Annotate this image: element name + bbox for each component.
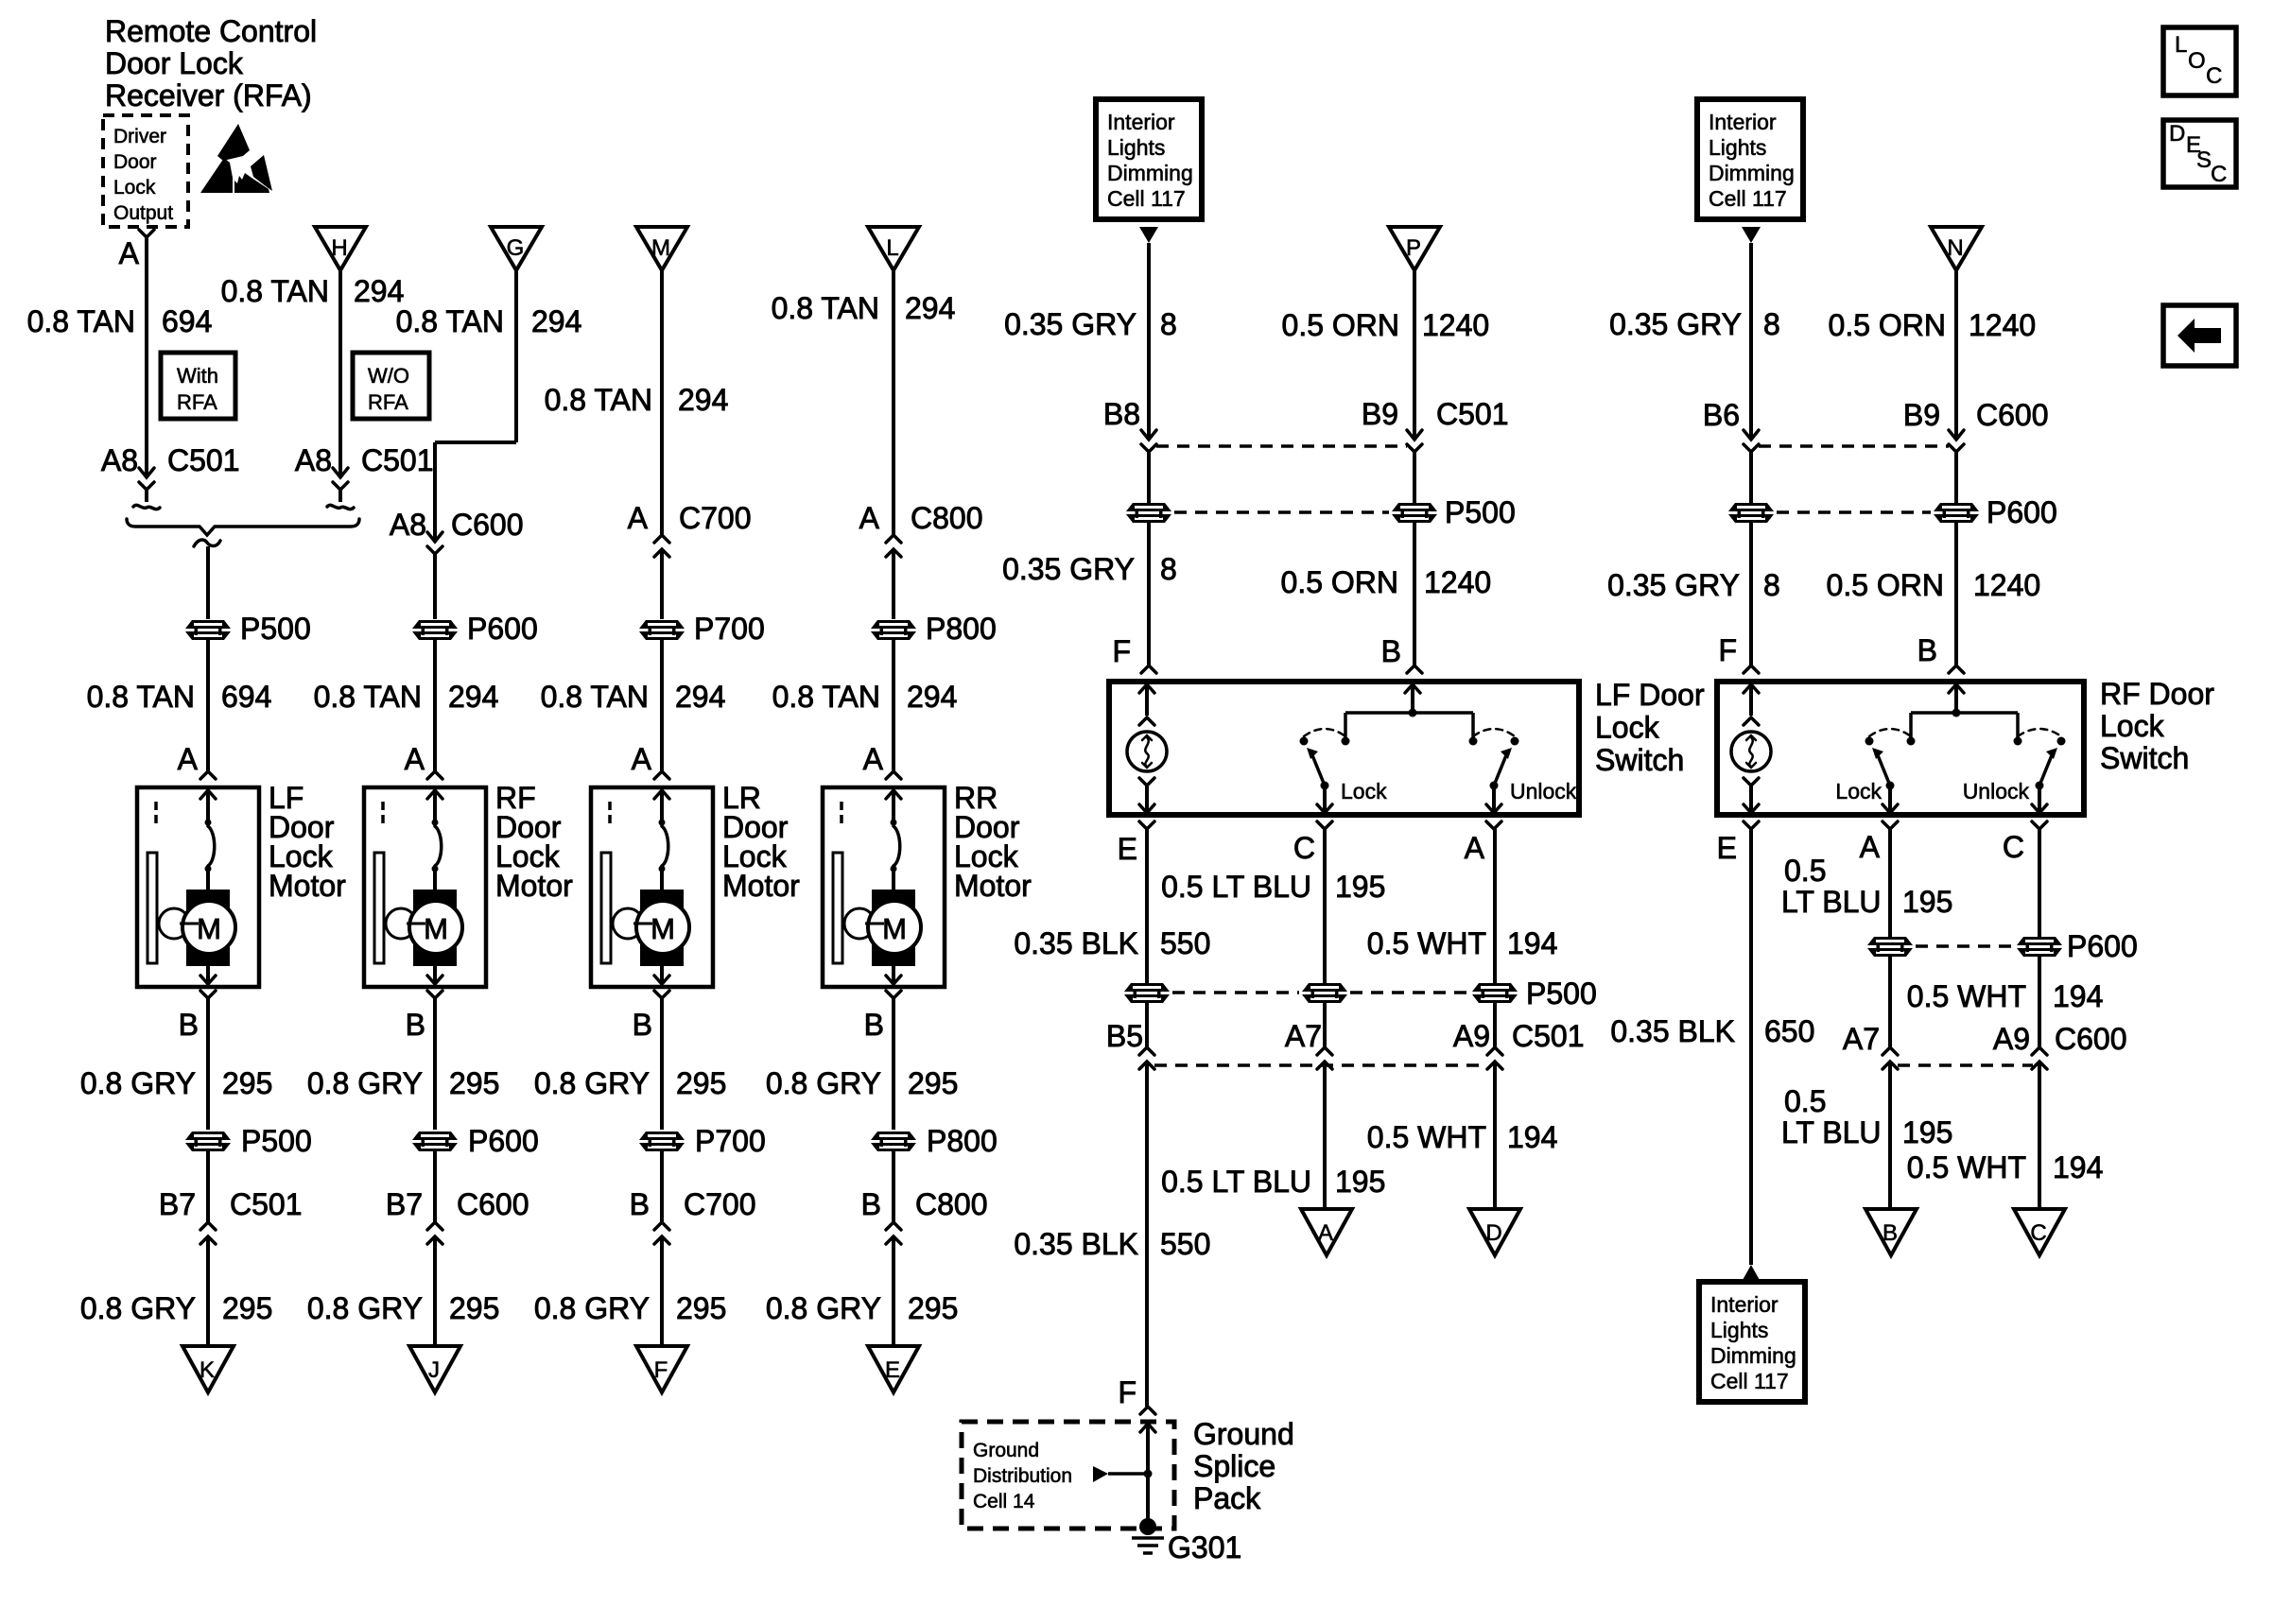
svg-text:LF Door: LF Door xyxy=(1595,678,1705,712)
svg-text:C800: C800 xyxy=(915,1187,988,1221)
svg-text:195: 195 xyxy=(1335,870,1385,904)
svg-text:Dimming: Dimming xyxy=(1107,161,1193,185)
svg-text:1240: 1240 xyxy=(1969,308,2036,342)
svg-text:B7: B7 xyxy=(386,1187,423,1221)
svg-text:L: L xyxy=(2175,32,2187,58)
svg-text:A: A xyxy=(1318,1220,1333,1246)
svg-text:P500: P500 xyxy=(1526,976,1597,1011)
svg-text:RFA: RFA xyxy=(368,390,408,414)
svg-text:Motor: Motor xyxy=(495,869,573,903)
svg-text:W/O: W/O xyxy=(368,364,409,388)
svg-text:0.5 LT BLU: 0.5 LT BLU xyxy=(1161,870,1311,904)
svg-text:0.5 LT BLU: 0.5 LT BLU xyxy=(1161,1165,1311,1199)
svg-text:B: B xyxy=(864,1008,884,1042)
svg-text:194: 194 xyxy=(1507,926,1557,960)
svg-text:Lights: Lights xyxy=(1709,135,1766,160)
svg-text:0.35 GRY: 0.35 GRY xyxy=(1607,568,1740,602)
svg-text:C600: C600 xyxy=(451,508,524,542)
svg-text:C501: C501 xyxy=(230,1187,303,1221)
svg-text:295: 295 xyxy=(222,1291,272,1325)
svg-text:M: M xyxy=(651,235,670,261)
svg-text:P600: P600 xyxy=(2067,929,2138,963)
svg-text:0.5 WHT: 0.5 WHT xyxy=(1907,979,2026,1013)
svg-text:B9: B9 xyxy=(1903,398,1940,432)
svg-text:C: C xyxy=(2003,830,2024,864)
svg-text:B: B xyxy=(861,1187,881,1221)
svg-text:0.5 ORN: 0.5 ORN xyxy=(1829,308,1946,342)
svg-text:A: A xyxy=(863,742,884,776)
svg-text:0.8 GRY: 0.8 GRY xyxy=(80,1291,196,1325)
svg-text:694: 694 xyxy=(162,304,212,338)
svg-text:0.8 GRY: 0.8 GRY xyxy=(534,1066,650,1100)
svg-text:D: D xyxy=(2169,121,2185,147)
svg-text:0.5 WHT: 0.5 WHT xyxy=(1367,1120,1486,1154)
svg-text:Dimming: Dimming xyxy=(1709,161,1795,185)
svg-text:0.5 ORN: 0.5 ORN xyxy=(1282,308,1399,342)
svg-text:Cell 117: Cell 117 xyxy=(1709,186,1787,211)
svg-text:LT BLU: LT BLU xyxy=(1781,885,1882,919)
svg-text:B: B xyxy=(633,1008,652,1042)
svg-text:0.8 TAN: 0.8 TAN xyxy=(772,291,879,325)
svg-text:F: F xyxy=(1118,1375,1136,1409)
svg-text:Switch: Switch xyxy=(1595,743,1684,777)
svg-text:B: B xyxy=(1917,633,1937,667)
svg-text:P500: P500 xyxy=(240,612,311,646)
svg-text:Interior: Interior xyxy=(1107,110,1175,134)
svg-text:0.8 TAN: 0.8 TAN xyxy=(27,304,135,338)
svg-text:Door: Door xyxy=(113,151,157,173)
svg-text:Motor: Motor xyxy=(269,869,346,903)
svg-text:P600: P600 xyxy=(467,612,538,646)
svg-text:P600: P600 xyxy=(1987,495,2057,529)
svg-text:Output: Output xyxy=(113,202,173,224)
svg-text:G: G xyxy=(507,235,525,261)
svg-text:C600: C600 xyxy=(1976,398,2049,432)
svg-text:D: D xyxy=(1485,1220,1501,1246)
svg-text:0.8 GRY: 0.8 GRY xyxy=(307,1066,423,1100)
svg-text:Lock: Lock xyxy=(1341,779,1387,803)
svg-text:B9: B9 xyxy=(1362,397,1398,431)
svg-text:0.8 TAN: 0.8 TAN xyxy=(772,680,880,714)
svg-text:M: M xyxy=(882,912,907,945)
svg-text:A7: A7 xyxy=(1285,1019,1322,1053)
svg-text:Lights: Lights xyxy=(1107,135,1165,160)
svg-text:0.5 WHT: 0.5 WHT xyxy=(1907,1150,2026,1184)
svg-text:0.8 GRY: 0.8 GRY xyxy=(534,1291,650,1325)
svg-text:194: 194 xyxy=(2053,979,2103,1013)
svg-text:P800: P800 xyxy=(927,1124,998,1158)
svg-text:B: B xyxy=(630,1187,650,1221)
svg-text:A9: A9 xyxy=(1453,1019,1490,1053)
svg-text:Splice: Splice xyxy=(1193,1449,1275,1483)
svg-text:M: M xyxy=(197,912,221,945)
svg-text:B8: B8 xyxy=(1103,397,1140,431)
svg-text:F: F xyxy=(654,1357,668,1383)
svg-text:B5: B5 xyxy=(1106,1019,1143,1053)
svg-text:Motor: Motor xyxy=(722,869,800,903)
svg-text:694: 694 xyxy=(221,680,271,714)
svg-text:Lock: Lock xyxy=(2100,709,2165,743)
svg-text:Unlock: Unlock xyxy=(1963,779,2030,803)
svg-text:294: 294 xyxy=(678,383,728,417)
svg-text:A8: A8 xyxy=(390,508,426,542)
svg-text:294: 294 xyxy=(531,304,581,338)
svg-text:C501: C501 xyxy=(361,443,434,477)
svg-text:C800: C800 xyxy=(911,501,983,535)
svg-text:0.35 GRY: 0.35 GRY xyxy=(1609,307,1742,341)
svg-text:0.35 BLK: 0.35 BLK xyxy=(1610,1014,1735,1048)
svg-text:8: 8 xyxy=(1160,307,1177,341)
svg-text:Interior: Interior xyxy=(1710,1292,1778,1317)
svg-text:N: N xyxy=(1947,235,1963,261)
svg-text:A7: A7 xyxy=(1843,1022,1880,1056)
svg-text:294: 294 xyxy=(905,291,955,325)
svg-text:Lock: Lock xyxy=(1835,779,1882,803)
svg-text:B: B xyxy=(1381,634,1401,668)
svg-text:P700: P700 xyxy=(694,612,765,646)
svg-text:0.8 TAN: 0.8 TAN xyxy=(314,680,422,714)
svg-text:A: A xyxy=(632,742,652,776)
svg-text:A: A xyxy=(628,501,649,535)
svg-text:P800: P800 xyxy=(926,612,997,646)
svg-text:294: 294 xyxy=(907,680,957,714)
svg-text:8: 8 xyxy=(1160,552,1177,586)
svg-text:Dimming: Dimming xyxy=(1710,1343,1796,1368)
svg-text:0.5: 0.5 xyxy=(1784,1084,1826,1118)
svg-text:1240: 1240 xyxy=(1424,565,1491,599)
svg-text:0.8 TAN: 0.8 TAN xyxy=(396,304,504,338)
svg-text:F: F xyxy=(1112,634,1131,668)
svg-text:C700: C700 xyxy=(684,1187,756,1221)
svg-text:294: 294 xyxy=(354,274,404,308)
svg-text:0.35 BLK: 0.35 BLK xyxy=(1014,1227,1138,1261)
svg-text:P: P xyxy=(1406,235,1421,261)
svg-text:294: 294 xyxy=(448,680,498,714)
svg-text:0.5 WHT: 0.5 WHT xyxy=(1367,926,1486,960)
svg-text:A: A xyxy=(1465,831,1485,865)
svg-text:8: 8 xyxy=(1763,307,1780,341)
svg-text:G301: G301 xyxy=(1168,1530,1241,1564)
svg-text:Driver: Driver xyxy=(113,126,166,147)
svg-text:295: 295 xyxy=(449,1066,499,1100)
svg-text:C600: C600 xyxy=(2055,1022,2127,1056)
svg-text:P600: P600 xyxy=(468,1124,539,1158)
svg-text:F: F xyxy=(1718,633,1737,667)
svg-text:E: E xyxy=(1717,831,1737,865)
svg-text:0.5 ORN: 0.5 ORN xyxy=(1281,565,1398,599)
svg-text:550: 550 xyxy=(1160,1227,1210,1261)
svg-text:8: 8 xyxy=(1763,568,1780,602)
svg-text:0.8 TAN: 0.8 TAN xyxy=(545,383,652,417)
svg-text:P500: P500 xyxy=(241,1124,312,1158)
svg-text:LT BLU: LT BLU xyxy=(1781,1115,1882,1149)
svg-text:294: 294 xyxy=(675,680,725,714)
svg-text:295: 295 xyxy=(222,1066,272,1100)
svg-text:195: 195 xyxy=(1902,1115,1952,1149)
svg-text:195: 195 xyxy=(1902,885,1952,919)
svg-text:A: A xyxy=(119,236,140,270)
svg-text:Cell 117: Cell 117 xyxy=(1710,1369,1789,1393)
svg-text:650: 650 xyxy=(1764,1014,1814,1048)
svg-text:J: J xyxy=(428,1357,440,1383)
svg-text:0.8 GRY: 0.8 GRY xyxy=(766,1291,881,1325)
svg-text:Motor: Motor xyxy=(954,869,1032,903)
svg-text:A8: A8 xyxy=(101,443,138,477)
svg-text:Lights: Lights xyxy=(1710,1318,1768,1342)
svg-text:1240: 1240 xyxy=(1973,568,2040,602)
svg-text:S: S xyxy=(2196,147,2212,173)
svg-text:0.5 ORN: 0.5 ORN xyxy=(1827,568,1944,602)
svg-text:0.8 GRY: 0.8 GRY xyxy=(766,1066,881,1100)
svg-text:0.5: 0.5 xyxy=(1784,854,1826,888)
svg-text:Cell 14: Cell 14 xyxy=(973,1491,1035,1512)
svg-text:B7: B7 xyxy=(159,1187,196,1221)
svg-text:P700: P700 xyxy=(695,1124,766,1158)
svg-text:0.8 GRY: 0.8 GRY xyxy=(80,1066,196,1100)
svg-text:A: A xyxy=(1860,830,1881,864)
svg-text:RFA: RFA xyxy=(177,390,217,414)
svg-text:B: B xyxy=(1883,1220,1898,1246)
svg-text:Switch: Switch xyxy=(2100,741,2189,775)
svg-text:Lock: Lock xyxy=(1595,711,1660,745)
svg-text:Interior: Interior xyxy=(1709,110,1777,134)
svg-text:0.8 TAN: 0.8 TAN xyxy=(541,680,649,714)
svg-text:P500: P500 xyxy=(1445,495,1516,529)
svg-text:H: H xyxy=(331,235,347,261)
svg-text:C: C xyxy=(2206,63,2222,89)
svg-text:195: 195 xyxy=(1335,1165,1385,1199)
svg-text:A: A xyxy=(859,501,880,535)
svg-text:194: 194 xyxy=(1507,1120,1557,1154)
svg-text:C700: C700 xyxy=(679,501,752,535)
svg-text:295: 295 xyxy=(676,1291,726,1325)
svg-text:B: B xyxy=(406,1008,425,1042)
svg-text:M: M xyxy=(651,912,675,945)
svg-text:E: E xyxy=(1118,832,1137,866)
svg-text:L: L xyxy=(886,235,898,261)
svg-text:Ground: Ground xyxy=(1193,1417,1294,1451)
svg-text:0.8 TAN: 0.8 TAN xyxy=(221,274,329,308)
svg-text:C501: C501 xyxy=(1436,397,1509,431)
svg-text:295: 295 xyxy=(908,1291,958,1325)
svg-text:E: E xyxy=(885,1357,900,1383)
svg-text:B: B xyxy=(179,1008,199,1042)
svg-text:Ground: Ground xyxy=(973,1440,1039,1461)
svg-text:C600: C600 xyxy=(457,1187,529,1221)
svg-text:0.8 GRY: 0.8 GRY xyxy=(307,1291,423,1325)
svg-text:1240: 1240 xyxy=(1422,308,1489,342)
svg-text:C501: C501 xyxy=(1512,1019,1585,1053)
svg-text:A8: A8 xyxy=(295,443,332,477)
svg-text:0.35 GRY: 0.35 GRY xyxy=(1004,307,1136,341)
svg-text:Cell 117: Cell 117 xyxy=(1107,186,1186,211)
svg-text:Remote Control: Remote Control xyxy=(105,14,317,48)
svg-text:B6: B6 xyxy=(1703,398,1740,432)
svg-text:Distribution: Distribution xyxy=(973,1465,1072,1487)
svg-text:A: A xyxy=(178,742,199,776)
svg-text:194: 194 xyxy=(2053,1150,2103,1184)
svg-text:C: C xyxy=(1293,831,1315,865)
svg-text:O: O xyxy=(2188,48,2206,74)
svg-text:0.8 TAN: 0.8 TAN xyxy=(87,680,195,714)
svg-text:0.35 GRY: 0.35 GRY xyxy=(1002,552,1135,586)
svg-text:C: C xyxy=(2211,162,2227,187)
svg-text:Receiver (RFA): Receiver (RFA) xyxy=(105,78,312,112)
svg-text:C: C xyxy=(2030,1220,2046,1246)
svg-text:A9: A9 xyxy=(1993,1022,2030,1056)
svg-text:Door Lock: Door Lock xyxy=(105,46,244,80)
svg-text:M: M xyxy=(424,912,448,945)
svg-text:Unlock: Unlock xyxy=(1510,779,1577,803)
svg-text:550: 550 xyxy=(1160,926,1210,960)
svg-text:RF Door: RF Door xyxy=(2100,677,2214,711)
svg-text:With: With xyxy=(177,364,218,388)
svg-text:C501: C501 xyxy=(167,443,240,477)
svg-text:A: A xyxy=(405,742,425,776)
svg-text:295: 295 xyxy=(676,1066,726,1100)
svg-text:0.35 BLK: 0.35 BLK xyxy=(1014,926,1138,960)
svg-text:Lock: Lock xyxy=(113,177,156,199)
svg-text:Pack: Pack xyxy=(1193,1481,1261,1515)
svg-text:295: 295 xyxy=(908,1066,958,1100)
svg-text:K: K xyxy=(200,1357,215,1383)
svg-text:295: 295 xyxy=(449,1291,499,1325)
